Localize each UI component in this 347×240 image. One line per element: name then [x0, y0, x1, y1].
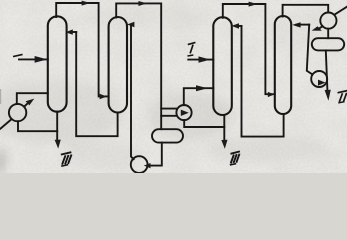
arrow: into pump H2 — [144, 163, 151, 168]
wire: H1 suction stubs — [161, 109, 176, 116]
arrow: product II down — [325, 90, 331, 101]
column K2 — [109, 17, 127, 113]
arrow: K1 overhead — [82, 1, 91, 6]
wire: H1 bottom line to K3 bottoms — [184, 120, 224, 127]
wire: T1 bottom to K1 bottom line — [18, 121, 57, 131]
arrow: into K3 lower feed — [196, 85, 208, 91]
wire: K3 bottoms product pipe — [223, 115, 225, 141]
wire: E1 bottom outlet to pump H2 — [148, 143, 162, 166]
arrow: K3 overhead — [249, 2, 258, 7]
arrow: feed into K4 — [268, 92, 275, 97]
pump H1 (middle) — [176, 105, 191, 120]
wire: T1 top to K1 wall — [17, 93, 48, 104]
label: feed dash (stream I faded) — [14, 55, 22, 57]
wire: T1 diagonal coolant line lower segment — [1, 119, 12, 129]
drum E2 — [312, 38, 344, 50]
paper background — [0, 0, 347, 173]
wire: T2 bottom to drum E2 — [327, 29, 329, 39]
pump H2 — [131, 156, 148, 173]
arrow: return into K3 — [231, 23, 239, 29]
label: stream III left — [62, 152, 71, 166]
arrow: inside pump H1 — [181, 110, 189, 116]
arrow: K2 overhead — [138, 1, 147, 6]
wire: K1 overhead riser — [56, 3, 108, 96]
label: stream I — [188, 43, 194, 56]
arrow: product III down (middle) — [221, 140, 227, 149]
wire: K4 bottoms to K3 top recycle U-loop — [242, 26, 284, 137]
wire: K1 bottoms product pipe — [56, 112, 58, 141]
wire: K1 feed line — [19, 58, 48, 60]
wire: T2 diagonal coolant line upper segment — [335, 7, 347, 15]
arrow: feed into K2 — [100, 94, 107, 99]
wire: K2 bottoms to K1 top recycle U-loop — [76, 32, 117, 136]
condenser T2 — [320, 13, 336, 29]
label: stream II — [338, 91, 346, 103]
arrow: K1 feed — [35, 56, 48, 63]
arrow: inside pump H3 — [318, 80, 326, 86]
drum E1 — [152, 129, 183, 142]
wire: E2 outlet product II — [326, 50, 328, 89]
wire: H1 discharge to K3 — [184, 88, 214, 105]
arrow: T1 diagonal arrowhead — [26, 99, 35, 106]
scan smudge bottom-left corner — [0, 147, 8, 173]
label: stream III middle — [231, 152, 240, 165]
wire: K4 overhead to condenser T2 — [283, 5, 329, 17]
wire: T2 diagonal lower stub — [320, 26, 323, 28]
wire: elbow into K3 — [237, 25, 242, 27]
column K3 — [213, 17, 232, 115]
wire: K2 overhead riser to drum E1 — [116, 3, 161, 129]
arrow: stream I feed — [199, 56, 211, 62]
arrow: T2 diagonal arrowhead — [312, 26, 322, 31]
arrow: return into K1 — [65, 29, 72, 34]
wire: stream I feed line — [188, 59, 213, 61]
column K4 — [275, 16, 291, 114]
wire: T1 diagonal upper stub — [24, 104, 27, 107]
pump H3 — [311, 71, 327, 87]
wire: K2 reflux riser from pump H2 — [131, 25, 134, 160]
arrow: reflux into K4 — [292, 22, 300, 27]
wire: H3 reflux riser to K4 top — [307, 25, 313, 75]
heat exchanger T1 (reboiler K1) — [9, 104, 26, 121]
wire: reflux elbow shaft — [297, 24, 310, 26]
scan smudge left edge — [0, 89, 1, 104]
column K1 — [48, 16, 67, 111]
arrow: reflux into K2 — [127, 22, 134, 28]
arrow: product III down — [55, 140, 61, 149]
wire: K3 overhead riser — [223, 4, 275, 94]
wire: elbow into K1 — [71, 31, 76, 33]
